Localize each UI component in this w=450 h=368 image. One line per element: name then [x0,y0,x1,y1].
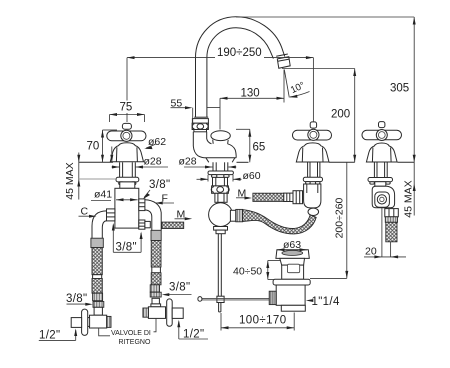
wire: deck top left [79,161,113,163]
middle valve left nut [293,191,303,204]
curved braid spout-to-valve [243,210,317,234]
neck [280,258,305,265]
svg-text:ø63: ø63 [283,239,301,251]
spout inner arc [207,28,274,117]
middle ferrule [284,193,293,201]
stem through deck [119,162,121,177]
dim 45 MAX left [78,153,80,200]
left nut [107,209,115,221]
cross arms [107,131,146,141]
wire: 305 vertical dimension line [413,17,415,216]
wire: deck side view [398,161,415,163]
wire: 190÷250 dim line [127,57,215,59]
ball nut below elbow [308,208,319,215]
wire: outlet flow vertical line [283,70,285,103]
svg-text:ø60: ø60 [243,170,261,182]
side ferrule [385,217,397,223]
spout riser joint band [194,116,208,118]
wire: deck right of middle handle [329,161,355,163]
dim 65 [249,129,251,162]
spout underdeck tube [213,177,228,186]
riser nut [192,119,208,124]
side nut [385,209,399,217]
side body [372,186,394,208]
svg-text:ø41: ø41 [94,189,112,201]
svg-text:75: 75 [120,102,133,114]
valve body [115,188,139,228]
lever [200,297,270,299]
svg-text:305: 305 [390,83,409,95]
svg-text:200: 200 [331,109,350,121]
wire: middle handle centerline [312,58,314,122]
ball bottom fitting [214,227,228,231]
bell [110,143,143,162]
svg-text:200÷260: 200÷260 [333,197,345,238]
middle valve elbow body [304,184,321,208]
svg-text:40÷50: 40÷50 [233,266,262,278]
body [276,285,305,305]
svg-text:ø28: ø28 [179,156,197,168]
wire: spout axis extension [219,98,221,129]
svg-text:65: 65 [253,142,266,154]
svg-text:100÷170: 100÷170 [239,315,287,327]
cross top nub [122,123,131,129]
svg-text:VALVOLE DI: VALVOLE DI [111,330,151,337]
wire: deck right of spout [237,161,249,163]
rod joint [217,296,224,302]
spout ball tee [209,203,233,227]
spout knob [211,131,230,141]
svg-text:3/8": 3/8" [149,179,170,191]
spout foot [206,158,209,163]
svg-text:45 MAX: 45 MAX [402,180,414,217]
ball right fitting nut [230,210,235,221]
cross boss [121,130,132,141]
extension line with arrow at deck [111,147,113,163]
flange [273,279,310,285]
block with overflow window [282,265,304,279]
svg-text:1"1/4: 1"1/4 [312,296,340,308]
spout pipe [215,193,227,202]
svg-text:RITEGNO: RITEGNO [119,339,151,346]
ball right ferrule [236,209,243,221]
rod tip [218,303,220,312]
spout escutcheon [208,171,233,175]
upper right nut [139,199,145,211]
svg-text:3/8": 3/8" [169,282,190,294]
spout outer arc [196,17,285,117]
side braid [386,222,397,242]
svg-text:ø28: ø28 [144,156,162,168]
svg-text:3/8": 3/8" [116,242,137,254]
angle arc 10deg [290,92,310,97]
svg-text:70: 70 [87,141,100,153]
wire: 130 dim [220,97,284,99]
pop-up cap [276,250,309,259]
wire: top tick 305 [236,16,414,18]
dim o60 [207,175,209,182]
svg-text:1/2": 1/2" [39,330,60,342]
spout nozzle [276,54,288,56]
spout shank [212,162,214,171]
svg-text:190÷250: 190÷250 [217,47,262,59]
wire: outlet flow 10 deg line [284,70,289,98]
svg-text:C: C [81,206,89,218]
svg-text:3/8": 3/8" [66,293,87,305]
spout dimple nut 2 [212,186,229,193]
lower right nut [139,220,145,229]
escutcheon [116,177,139,182]
wire: deck bottom left (gray) [79,178,116,180]
svg-text:45 MAX: 45 MAX [64,162,76,199]
pop-up rod [217,234,219,297]
wall braid M [162,222,184,228]
tailpiece [281,305,305,311]
wire: outlet height tick [282,68,355,70]
wire: 200 dim vertical [354,69,356,163]
horizontal supply braid [253,193,284,201]
wire: left handle centerline [126,58,128,101]
spout body S-curve [193,132,236,158]
svg-text:130: 130 [241,88,260,100]
